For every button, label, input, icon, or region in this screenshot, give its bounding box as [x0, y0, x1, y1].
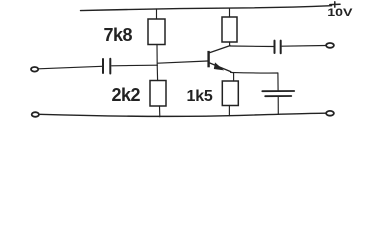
svg-text:2k2: 2k2: [112, 85, 141, 105]
svg-text:1k5: 1k5: [187, 88, 213, 105]
svg-text:10V: 10V: [327, 7, 353, 19]
svg-text:7k8: 7k8: [104, 25, 133, 45]
